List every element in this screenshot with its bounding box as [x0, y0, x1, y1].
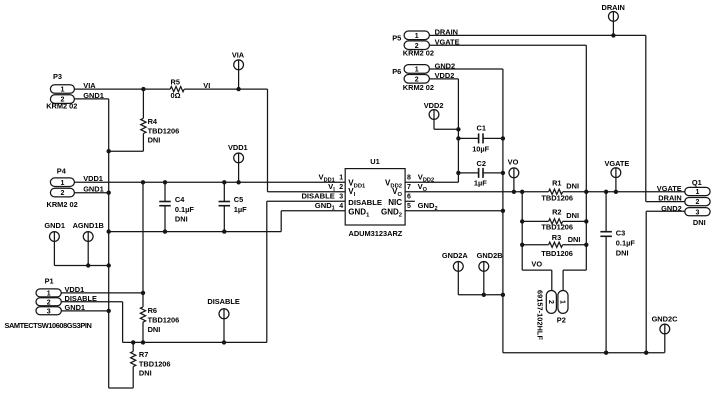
svg-text:DRAIN: DRAIN	[658, 194, 681, 203]
testpoint VDD1	[234, 153, 244, 163]
junction left resistor bus top	[520, 190, 524, 194]
testpoint VDD2	[429, 110, 439, 120]
svg-text:1: 1	[60, 87, 64, 94]
wire DISABLE to U1 pin3	[267, 200, 345, 202]
svg-text:TBD1206: TBD1206	[541, 193, 573, 202]
junction R4 top on VIA wire	[141, 87, 145, 91]
svg-text:GND2C: GND2C	[652, 314, 679, 323]
svg-text:TBD1206: TBD1206	[148, 316, 180, 325]
svg-text:2: 2	[60, 190, 64, 197]
wire R4 bottom to GND1 bus	[109, 150, 144, 152]
connector P5	[404, 31, 429, 40]
svg-text:R3: R3	[552, 233, 561, 242]
svg-text:1µF: 1µF	[234, 205, 247, 214]
wire P1 pin3 GND1	[61, 310, 108, 312]
svg-text:DNI: DNI	[616, 248, 629, 257]
op-amp U1 ADUM3123ARZ body	[345, 169, 405, 225]
wire VDD1 row P4 to U1 pin1	[74, 181, 345, 183]
junction right resistor bus top	[584, 190, 588, 194]
svg-text:P5: P5	[392, 33, 401, 42]
wire R5 to VI corner	[184, 88, 267, 90]
svg-text:7: 7	[407, 184, 411, 191]
wire VGATE row R1 to Q1 pin1	[563, 191, 685, 193]
junction R6 bottom on DISABLE bus	[141, 340, 145, 344]
svg-text:DISABLE: DISABLE	[207, 297, 240, 306]
svg-text:1µF: 1µF	[474, 178, 487, 187]
svg-text:Q1: Q1	[692, 178, 702, 187]
testpoint DRAIN	[609, 12, 619, 22]
svg-text:10µF: 10µF	[472, 145, 489, 154]
svg-text:C1: C1	[477, 123, 486, 132]
svg-text:1: 1	[558, 300, 565, 304]
svg-text:TBD1206: TBD1206	[541, 223, 573, 232]
svg-text:VO: VO	[531, 260, 542, 269]
svg-text:1: 1	[60, 180, 64, 187]
connector P3	[50, 85, 74, 94]
svg-text:P1: P1	[45, 277, 54, 286]
svg-text:2: 2	[547, 300, 554, 304]
junction C1 right	[501, 136, 505, 140]
svg-text:NIC: NIC	[388, 198, 402, 207]
svg-text:DNI: DNI	[693, 218, 706, 227]
wire GND2 from P6 pin1	[429, 68, 503, 70]
svg-text:6: 6	[407, 194, 411, 201]
wire VI vertical down to U1 pin2	[267, 89, 269, 192]
wire VDD2 from P6 pin2	[429, 78, 458, 80]
wire GND2 vertical bus right side	[502, 69, 504, 353]
wire VGATE vertical down to gate resistor row	[585, 45, 587, 192]
wire DRAIN vertical to Q1 pin2	[645, 35, 647, 201]
capacitor C3	[600, 231, 612, 233]
junction AGND1B lead	[86, 263, 90, 267]
wire VGATE bus corner to P2 pin1	[563, 269, 586, 271]
wire P1 pin2 DISABLE horizontal	[61, 301, 122, 303]
svg-text:DNI: DNI	[566, 182, 579, 191]
svg-text:2: 2	[47, 299, 51, 306]
wire P1 pin1 VDD1 to R6 column	[61, 292, 143, 294]
junction C4 top	[163, 180, 167, 184]
testpoint GND2B	[479, 262, 489, 272]
svg-text:VDD1: VDD1	[83, 174, 103, 183]
svg-text:KRM2 02: KRM2 02	[46, 101, 77, 110]
svg-text:DISABLE: DISABLE	[348, 198, 382, 207]
junction VDD1 testpoint on VDD1 row	[236, 180, 240, 184]
junction P1 pin3 on GND1 bus	[107, 309, 111, 313]
junction Q1 GND2 on bottom bus	[644, 351, 648, 355]
junction U1 pin5 on GND2 vertical	[501, 209, 505, 213]
junction R3 right	[584, 243, 588, 247]
svg-text:1: 1	[415, 33, 419, 40]
svg-text:1: 1	[47, 291, 51, 298]
wire to U1 pin4 GND_1	[281, 210, 345, 212]
connector P4	[50, 178, 74, 187]
svg-text:3: 3	[47, 308, 51, 315]
svg-text:R5: R5	[171, 77, 180, 86]
svg-text:69157-102HLF: 69157-102HLF	[535, 290, 544, 341]
junction DISABLE testpoint on DISABLE bus	[222, 340, 226, 344]
junction R2 right	[584, 219, 588, 223]
svg-text:8: 8	[407, 175, 411, 182]
junction R2 left	[520, 219, 524, 223]
svg-text:4: 4	[339, 203, 343, 210]
svg-text:DNI: DNI	[568, 235, 581, 244]
svg-text:VO: VO	[508, 158, 519, 167]
testpoint GND2A	[453, 262, 463, 272]
junction P1 pin1 wire on R6 column	[141, 291, 145, 295]
wire P3 pin1 VIA to R5	[74, 88, 170, 90]
svg-text:DNI: DNI	[139, 369, 152, 378]
svg-text:VGATE: VGATE	[604, 159, 629, 168]
resistor R3	[549, 242, 563, 247]
svg-text:R7: R7	[139, 350, 148, 359]
junction GND2A/B wire on GND2 vertical	[501, 293, 505, 297]
svg-text:5: 5	[407, 203, 411, 210]
connector P6	[404, 65, 429, 74]
svg-text:P2: P2	[557, 316, 566, 325]
wire U1 pin5 GND_2 to GND2 vertical	[405, 210, 503, 212]
wire GND1 capacitor bus	[109, 231, 282, 233]
junction GND1 bus and capacitor bus	[107, 229, 111, 233]
svg-text:R4: R4	[148, 117, 158, 126]
resistor R6	[140, 307, 145, 322]
svg-text:KRM2 02: KRM2 02	[403, 49, 434, 58]
svg-text:VGATE: VGATE	[657, 184, 682, 193]
svg-text:KRM2 02: KRM2 02	[403, 83, 434, 92]
wire VDD2 vertical	[457, 79, 459, 182]
wire P4 pin2 GND1	[74, 192, 108, 194]
junction testpoint wire on GND1 bus	[107, 263, 111, 267]
junction C3 top on VGATE row	[604, 190, 608, 194]
svg-text:P4: P4	[57, 167, 67, 176]
wire U1 pin6 NIC stub	[405, 200, 415, 202]
resistor R4	[141, 118, 146, 133]
svg-text:AGND1B: AGND1B	[73, 221, 104, 230]
svg-text:C5: C5	[234, 195, 243, 204]
wire Q1 pin3 GND2	[646, 210, 685, 212]
svg-text:R1: R1	[552, 178, 561, 187]
junction DRAIN testpoint on DRAIN row	[611, 33, 615, 37]
svg-text:0.1µF: 0.1µF	[616, 238, 636, 247]
junction C2 right	[501, 171, 505, 175]
wire DISABLE down from P1 pin2	[122, 302, 124, 343]
wire U1 pin8 VDD2	[405, 181, 458, 183]
wire GND2A GND2B to GND2 vertical	[458, 294, 503, 296]
connector P1	[36, 289, 61, 297]
junction C1 left	[456, 136, 460, 140]
wire DRAIN into Q1 pin2	[646, 201, 685, 203]
svg-text:DRAIN: DRAIN	[601, 3, 624, 12]
wire DRAIN row from P5 pin1	[429, 34, 645, 36]
svg-text:DNI: DNI	[566, 211, 579, 220]
svg-text:ADUM3123ARZ: ADUM3123ARZ	[349, 229, 403, 238]
wire VDD1 column down to R6	[142, 182, 144, 307]
wire VO bus corner to P2 pin2	[522, 269, 552, 271]
svg-text:VDD2: VDD2	[424, 101, 444, 110]
svg-text:DISABLE: DISABLE	[301, 192, 334, 201]
svg-text:C4: C4	[175, 195, 185, 204]
junction VIA testpoint on VI wire	[236, 87, 240, 91]
wire P3 pin2 GND1 horizontal	[74, 98, 108, 100]
wire VI to U1 pin2	[268, 191, 346, 193]
junction C5 bottom	[222, 229, 226, 233]
junction C4 bottom	[163, 229, 167, 233]
svg-text:3: 3	[695, 209, 699, 216]
svg-text:1: 1	[415, 67, 419, 74]
svg-text:2: 2	[695, 199, 699, 206]
junction VO testpoint on VO row	[512, 190, 516, 194]
wire VGATE row from P5 pin2	[429, 44, 586, 46]
svg-text:DNI: DNI	[148, 136, 161, 145]
wire DISABLE vertical up to U1 pin3	[266, 201, 268, 342]
svg-text:1: 1	[695, 189, 699, 196]
capacitor C5	[219, 201, 231, 203]
svg-text:R6: R6	[148, 306, 157, 315]
svg-text:GND1: GND1	[44, 221, 65, 230]
resistor R5	[170, 87, 184, 92]
wire GND1 vertical bus	[108, 99, 110, 388]
junction GND2B lead	[482, 293, 486, 297]
wire left resistor bus	[521, 192, 523, 270]
junction R3 left	[520, 243, 524, 247]
svg-text:TBD1206: TBD1206	[541, 249, 573, 258]
resistor R7	[131, 351, 136, 366]
testpoint AGND1B	[83, 232, 93, 242]
svg-text:C3: C3	[616, 229, 625, 238]
wire GND1 testpoint to GND1 bus	[54, 265, 108, 267]
wire U1 pin7 VO row	[405, 191, 548, 193]
wire U1 pin4 down to capacitor bus	[280, 211, 282, 232]
junction R4 bottom on GND1 bus	[107, 149, 111, 153]
junction VGATE testpoint on VGATE row	[614, 190, 618, 194]
svg-text:2: 2	[339, 184, 343, 191]
testpoint GND1	[50, 232, 60, 242]
wire GND2 from Q1 down to bottom bus	[645, 211, 647, 352]
transistor connector Q1	[685, 187, 710, 195]
capacitor C4	[159, 201, 171, 203]
testpoint DISABLE	[219, 309, 229, 319]
svg-text:R2: R2	[552, 208, 561, 217]
resistor R2	[549, 219, 563, 224]
junction C2 left	[456, 171, 460, 175]
wire right resistor bus	[585, 192, 587, 270]
wire VDD2 testpoint lead to VDD2 vertical	[434, 128, 458, 130]
svg-text:VDD1: VDD1	[228, 143, 248, 152]
junction R6 column on VDD1 row	[141, 180, 145, 184]
wire GND2 bottom bus	[503, 352, 665, 354]
junction C5 top	[222, 180, 226, 184]
connector P2	[546, 291, 556, 314]
svg-text:3: 3	[339, 194, 343, 201]
svg-text:0.1µF: 0.1µF	[175, 205, 195, 214]
svg-text:KRM2 02: KRM2 02	[47, 200, 78, 209]
junction R7 top on DISABLE bus	[131, 340, 135, 344]
svg-text:P3: P3	[53, 72, 62, 81]
svg-text:TBD1206: TBD1206	[148, 126, 180, 135]
junction VDD2 testpoint on VDD2 vertical	[456, 127, 460, 131]
svg-text:GND1: GND1	[83, 184, 104, 193]
svg-text:GND2B: GND2B	[477, 251, 503, 260]
resistor R1	[549, 189, 563, 194]
capacitor C2	[478, 168, 480, 178]
testpoint VIA	[234, 60, 244, 70]
svg-text:VIA: VIA	[232, 51, 245, 60]
junction P4 pin2 on GND1 bus	[107, 191, 111, 195]
svg-text:GND2A: GND2A	[442, 251, 469, 260]
junction C3 bottom on GND2 bottom bus	[604, 351, 608, 355]
svg-text:SAMTECTSW10608GS3PIN: SAMTECTSW10608GS3PIN	[5, 321, 92, 330]
testpoint GND2C	[660, 324, 670, 334]
svg-text:1: 1	[339, 175, 343, 182]
testpoint VO	[509, 168, 519, 178]
svg-text:P6: P6	[392, 67, 401, 76]
wire DISABLE bottom bus	[123, 341, 267, 343]
svg-text:C2: C2	[477, 159, 486, 168]
svg-text:DNI: DNI	[175, 215, 188, 224]
svg-text:VI: VI	[203, 81, 210, 90]
svg-text:TBD1206: TBD1206	[139, 359, 171, 368]
wire R7 bottom to GND1 bus	[109, 387, 134, 389]
svg-text:0Ω: 0Ω	[171, 91, 181, 100]
svg-text:DNI: DNI	[148, 325, 161, 334]
svg-text:U1: U1	[370, 157, 379, 166]
capacitor C1	[478, 133, 480, 143]
testpoint VGATE	[611, 168, 621, 178]
